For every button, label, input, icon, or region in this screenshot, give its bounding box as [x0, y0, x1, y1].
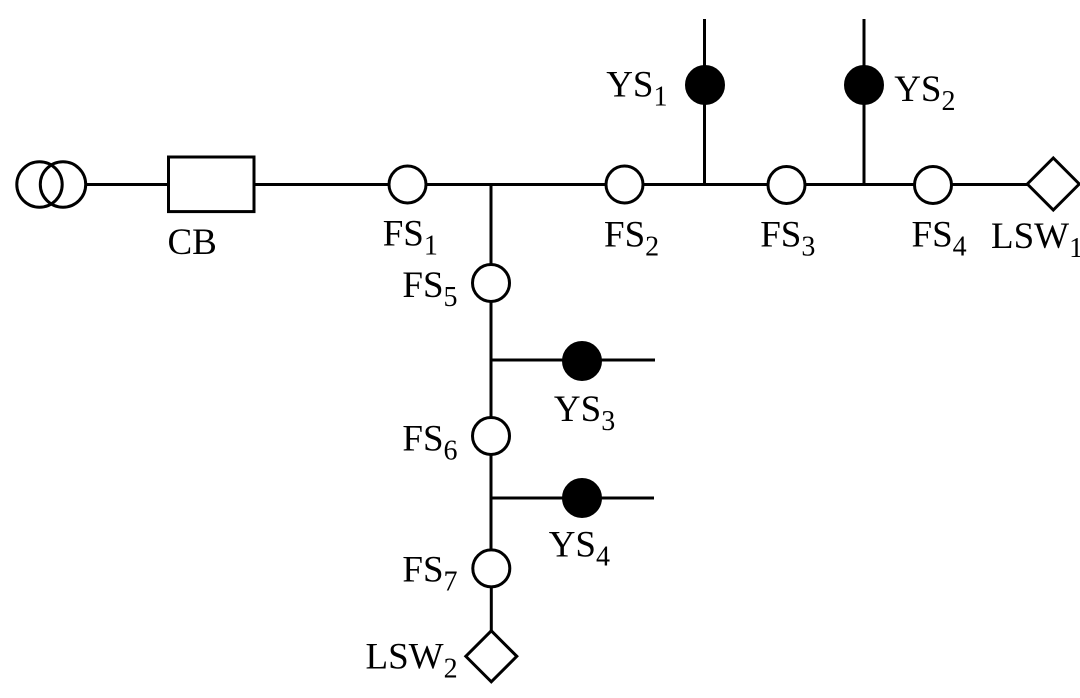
sectionalizer YS2: [846, 67, 883, 104]
circuit breaker CB: [169, 157, 255, 212]
switch FS6: [473, 418, 510, 455]
switch FS5: [473, 265, 510, 302]
svg-text:FS7: FS7: [402, 549, 457, 597]
switch FS2: [606, 166, 643, 203]
svg-text:YS1: YS1: [606, 65, 667, 113]
svg-text:FS5: FS5: [402, 265, 457, 313]
wire FS1 to FS2: [427, 183, 605, 186]
wire FS6 to FS7: [490, 456, 493, 550]
svg-text:CB: CB: [168, 222, 217, 263]
wire CB to FS1: [254, 183, 388, 186]
switch FS3: [768, 167, 805, 204]
wire branch right to YS3: [491, 359, 655, 362]
wire FS5 to FS6: [490, 303, 493, 418]
switch FS7: [473, 550, 510, 587]
svg-text:FS6: FS6: [402, 419, 457, 467]
svg-text:YS4: YS4: [549, 525, 610, 573]
wire FS3 to FS4: [806, 183, 914, 186]
svg-text:LSW2: LSW2: [366, 636, 458, 684]
switch FS4: [915, 167, 952, 204]
svg-text:LSW1: LSW1: [991, 216, 1080, 264]
source generator G: [17, 162, 86, 207]
svg-text:YS2: YS2: [894, 69, 955, 117]
wire source to CB: [86, 183, 169, 186]
sectionalizer YS4: [564, 480, 601, 517]
wire FS2 to FS3: [644, 183, 767, 186]
switch FS1: [389, 166, 426, 203]
sectionalizer YS3: [564, 343, 601, 380]
svg-text:FS2: FS2: [604, 215, 659, 263]
svg-text:FS1: FS1: [383, 214, 438, 262]
svg-text:FS4: FS4: [912, 215, 967, 263]
sectionalizer YS1: [687, 67, 724, 104]
wire branch right to YS4: [491, 497, 654, 500]
wire FS7 to LSW2: [490, 588, 493, 633]
wire branch up to YS1: [703, 19, 706, 185]
load switch LSW2: [466, 631, 517, 682]
wire junction down to FS5: [490, 185, 493, 265]
wire FS4 to LSW1: [953, 183, 1029, 186]
svg-text:FS3: FS3: [760, 215, 815, 263]
load switch LSW1: [1027, 158, 1079, 210]
wire branch up to YS2: [863, 19, 866, 185]
svg-text:YS3: YS3: [554, 389, 615, 437]
